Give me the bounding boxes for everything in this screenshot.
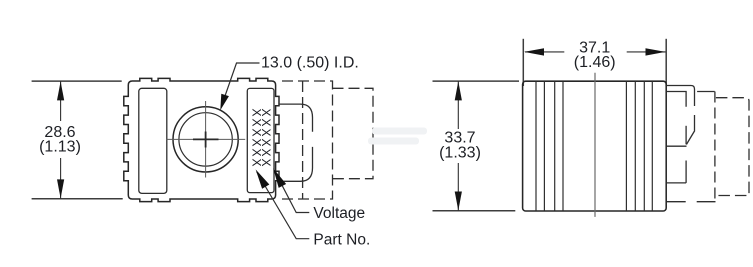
svg-text:13.0 (.50) I.D.: 13.0 (.50) I.D.: [261, 55, 359, 72]
hidden line vertical V1: [302, 81, 304, 199]
svg-text:(1.46): (1.46): [574, 54, 616, 71]
terminal inner edge lower segment: [685, 126, 687, 145]
leader Voltage: [275, 171, 310, 213]
arrowhead up 33.7: [455, 81, 462, 100]
center mark horizontal: [193, 138, 219, 140]
centerline horizontal: [167, 138, 246, 140]
hidden plug left vertical dashed: [714, 92, 716, 202]
arrowhead Part No.: [252, 167, 269, 189]
hidden connector rectangle (dashed, right): [333, 88, 374, 178]
terminal chamfer diagonal: [686, 131, 694, 145]
extension line 33.7 bottom: [433, 210, 516, 212]
lower terminal edge vertical: [685, 161, 687, 183]
hidden line vertical V2 with top/bottom dashed horizontals: [282, 81, 333, 199]
terminal step outer hidden continuation: [694, 115, 696, 131]
coil body outline (front view) with top/bottom tabs and side serrations: [124, 78, 279, 201]
dimension extension line top-left 28.6: [32, 80, 122, 82]
hidden bottom line dashed: [667, 201, 716, 203]
extension line 33.7 top: [433, 80, 520, 82]
inner slot rectangle (left): [139, 88, 167, 193]
dimension line 33.7 vertical: [457, 81, 459, 129]
extension line 37.1 left: [522, 39, 524, 86]
label plate rectangle with part markings: [247, 88, 274, 192]
arrowhead 13.0 leader: [216, 94, 228, 112]
dimension line 37.1 right with arrow: [627, 51, 666, 53]
body centre parting line: [594, 73, 596, 217]
flange rib lines right: [625, 82, 627, 211]
terminal step outer (top): [666, 86, 694, 107]
terminal mid horizontal: [666, 145, 686, 147]
svg-text:Voltage: Voltage: [313, 205, 365, 222]
svg-text:Part No.: Part No.: [313, 232, 370, 249]
leader Part No.: [257, 172, 310, 239]
arrowhead Voltage: [269, 166, 286, 188]
dimension line 37.1 left with arrow: [525, 51, 564, 53]
flange rib lines left: [535, 82, 537, 211]
terminal tab (D shape, lower part): [279, 147, 313, 181]
center mark vertical: [205, 132, 207, 148]
centerline vertical: [205, 101, 207, 178]
svg-text:(1.33): (1.33): [439, 145, 481, 162]
hidden plug outer rectangle dashed: [716, 98, 749, 196]
lower terminal horizontal: [666, 182, 686, 184]
faint watermark remnant: [368, 128, 427, 145]
arrowhead down 33.7: [455, 192, 462, 211]
svg-text:XXXXXX: XXXXXX: [259, 109, 273, 167]
dimension extension line bottom-left 28.6: [32, 198, 123, 200]
terminal step inner (top): [666, 92, 686, 107]
mounting hole outer circle: [173, 107, 238, 172]
arrowhead up 28.6: [57, 81, 64, 100]
dimension line 28.6 vertical: [60, 81, 62, 121]
coil body outline (side view): [523, 81, 667, 211]
extension line 37.1 right: [665, 39, 667, 86]
terminal tab (D shape, upper part): [279, 104, 313, 132]
arrowhead down 28.6: [57, 179, 64, 198]
svg-text:(1.13): (1.13): [39, 139, 81, 156]
hidden plug top edge: [697, 91, 715, 93]
leader for 13.0 I.D.: [222, 63, 260, 106]
mounting hole inner circle: [179, 113, 232, 166]
